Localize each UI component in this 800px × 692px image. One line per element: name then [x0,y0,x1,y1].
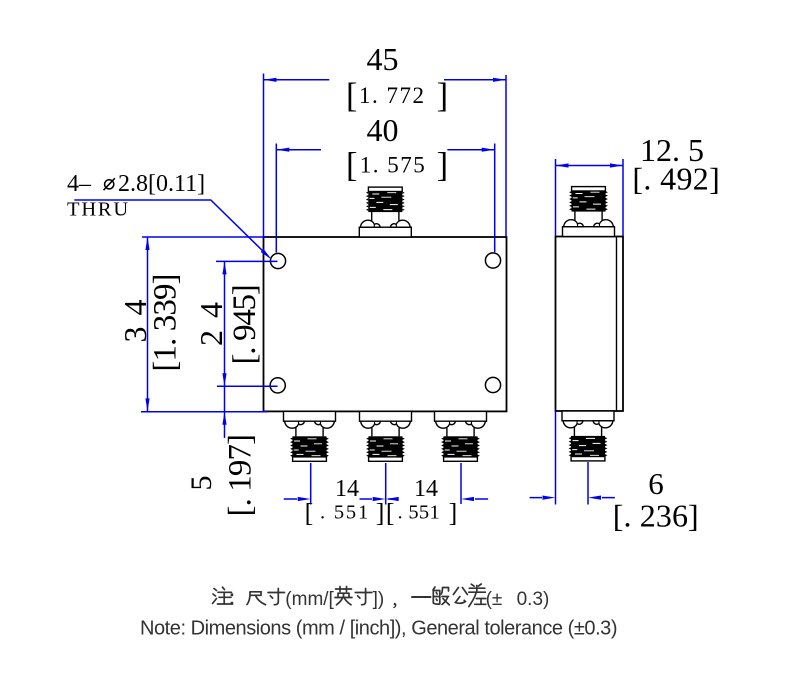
svg-text:14: 14 [414,476,438,502]
svg-text:1. 772: 1. 772 [359,83,426,108]
dimension 45 arrows [264,78,277,82]
SMA connector side bottom [562,411,614,461]
dimension 40 line [276,149,494,151]
CJK chi [247,592,266,605]
CJK cun 2 [355,589,372,605]
svg-text:]: ] [437,77,449,115]
svg-text:[: [ [346,77,358,115]
CJK ying [335,587,352,605]
svg-text:2.8[0.11]: 2.8[0.11] [118,171,205,197]
mounting hole bottom-right [485,377,500,392]
svg-text:[. 492]: [. 492] [632,160,720,196]
dimension 40 extension lines [276,144,494,253]
dimension 6 arrows [543,496,556,500]
svg-text:0.3): 0.3) [517,589,550,610]
dimension 24 arrows [222,261,226,274]
SMA connector input (front top) [359,187,411,237]
SMA connector output 1 (front bottom left) [284,411,336,461]
dimension 45 line [264,79,507,81]
svg-text:40: 40 [367,112,399,148]
svg-text:(mm/[: (mm/[ [285,589,334,610]
svg-text:]: ] [449,498,458,527]
leader arrow [261,249,273,261]
svg-text:1. 575: 1. 575 [360,153,427,178]
note line 1 latin part [231,593,234,604]
svg-text:THRU: THRU [67,199,130,221]
dimension 14 centerline extensions [311,463,461,505]
svg-text:]: ] [437,147,449,185]
svg-text:[: [ [305,498,314,527]
dimension 34 arrows [145,237,149,250]
SMA connector output 2 (front bottom middle) [360,411,412,461]
svg-text:[. 197]: [. 197] [223,435,259,517]
svg-text:[. 945]: [. 945] [227,286,263,365]
svg-text:. 551: . 551 [320,502,370,524]
mounting hole top-left [270,253,285,268]
dimension 34 line [147,237,149,411]
CJK ban [433,587,449,605]
svg-text:[. 236]: [. 236] [613,497,699,533]
svg-text:14: 14 [335,476,359,502]
svg-text:]: ] [376,498,385,527]
svg-text:5: 5 [185,476,218,491]
svg-text:45: 45 [367,41,399,77]
leader line [74,200,269,257]
dimension 12.5 line [556,165,624,167]
svg-text:24: 24 [193,290,229,346]
mounting hole bottom-left [270,378,285,393]
svg-text:[: [ [386,498,395,527]
dimension 12.5 extension lines [556,159,624,236]
mounting hole top-right [485,253,500,268]
svg-text:[: [ [346,147,358,185]
dimension 5 arrow [222,412,226,425]
dimension 12.5 arrows [556,163,569,167]
dimension 34 extension lines [141,237,268,412]
side view body outline [556,237,624,412]
CJK zhu [213,587,233,604]
CJK cha [469,584,486,607]
dimension 24 extension lines [216,261,278,386]
dimension 6 line tails [530,497,615,499]
side view inner edge line [616,237,618,412]
SMA connector output 3 (front bottom right) [435,411,487,461]
svg-text:]): ]) [373,589,385,610]
dimension 14 arrows [298,497,311,501]
svg-text:4–: 4– [67,171,92,197]
CJK gong [453,588,467,604]
dimension 45 extension lines [264,74,507,237]
diameter symbol [104,178,115,190]
CJK glyphs note line 1 [213,584,486,607]
svg-text:(±: (± [486,589,503,610]
svg-text:. 551: . 551 [398,502,441,524]
SMA connector side top [563,187,615,237]
dimension 24 line [224,261,226,438]
svg-text:6: 6 [648,466,664,501]
dimension 14 lines and tails [284,498,488,500]
CJK cun 1 [268,589,285,605]
svg-text:[1. 339]: [1. 339] [148,274,184,371]
svg-text:Note: Dimensions (mm / [inch]): Note: Dimensions (mm / [inch]), General … [140,618,617,640]
dimension 40 arrows [276,148,289,152]
front view body outline [264,237,507,411]
CJK yi [412,596,431,598]
dimension 6 extension lines [556,411,589,505]
